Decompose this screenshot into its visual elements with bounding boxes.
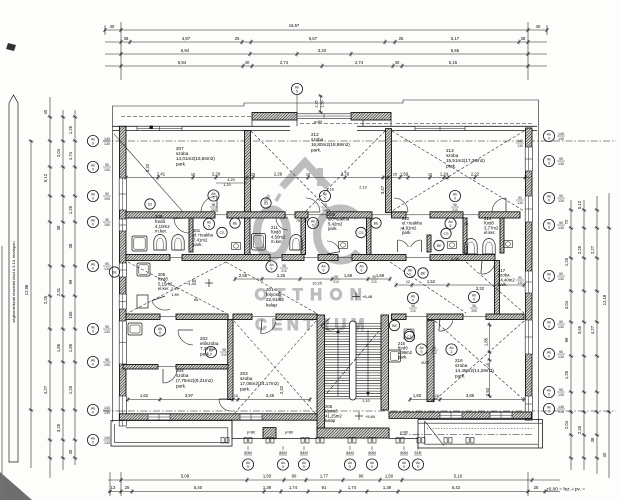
level mark corridor (352, 293, 373, 301)
svg-text:40: 40 (110, 24, 115, 29)
eaves outline (113, 100, 539, 422)
kitchen block room 202 (128, 323, 142, 335)
svg-text:park.: park. (176, 161, 186, 166)
svg-text:1,68: 1,68 (344, 273, 353, 278)
svg-text:1,60: 1,60 (413, 393, 422, 398)
svg-text:5,15: 5,15 (449, 60, 458, 65)
corridor upper wall (126, 255, 170, 261)
svg-text:10: 10 (435, 394, 439, 398)
bubble leader line top (296, 95, 298, 113)
svg-text:5: 5 (450, 224, 452, 228)
left exterior wall (120, 126, 127, 420)
svg-text:1,74: 1,74 (68, 151, 73, 160)
svg-text:84: 84 (192, 279, 196, 283)
basin near 202 (232, 243, 241, 250)
svg-text:1,10: 1,10 (362, 399, 369, 403)
svg-text:9: 9 (92, 267, 94, 271)
door room 207 (201, 196, 217, 212)
svg-text:BE: BE (421, 271, 426, 275)
svg-text:9: 9 (548, 277, 550, 281)
svg-text:2,10: 2,10 (359, 186, 366, 190)
svg-text:CS: CS (359, 231, 365, 235)
svg-text:p=80: p=80 (285, 431, 294, 435)
stair bottom wall (317, 428, 389, 438)
svg-text:9: 9 (92, 411, 94, 415)
svg-text:2,25: 2,25 (277, 273, 286, 278)
svg-text:2,55: 2,55 (239, 273, 248, 278)
svg-text:98: 98 (432, 346, 436, 350)
top wall window room 213 (415, 126, 465, 130)
svg-text:140: 140 (104, 436, 110, 440)
svg-text:kalap: kalap (266, 302, 277, 307)
svg-text:el.ker.: el.ker. (484, 230, 495, 235)
svg-text:190: 190 (104, 197, 110, 201)
diagonal sight lines (114, 134, 183, 212)
svg-text:1,18: 1,18 (326, 188, 333, 192)
svg-text:40: 40 (395, 60, 400, 65)
door room 209 (327, 241, 340, 252)
svg-text:9: 9 (247, 465, 249, 469)
loggia pillar right (351, 113, 391, 121)
dim row corridor (233, 257, 525, 291)
svg-text:130: 130 (558, 226, 564, 230)
door room 213 right (492, 198, 506, 212)
svg-text:98: 98 (323, 203, 327, 207)
svg-text:210: 210 (333, 280, 339, 284)
svg-text:99: 99 (68, 279, 73, 284)
svg-text:5,94: 5,94 (178, 60, 187, 65)
svg-text:3,04: 3,04 (564, 300, 569, 309)
svg-text:190: 190 (104, 363, 110, 367)
svg-text:140: 140 (558, 405, 564, 409)
svg-text:5: 5 (296, 90, 298, 94)
svg-text:5,12: 5,12 (577, 200, 582, 209)
svg-text:130: 130 (558, 277, 564, 281)
svg-text:12,98: 12,98 (24, 284, 29, 295)
svg-text:130: 130 (104, 441, 110, 445)
svg-text:2,27: 2,27 (590, 245, 595, 254)
double door room 210 (398, 240, 409, 247)
svg-text:40: 40 (68, 449, 73, 454)
svg-text:90: 90 (105, 262, 109, 266)
svg-text:12,18: 12,18 (602, 294, 607, 305)
svg-text:16: 16 (486, 363, 490, 367)
svg-text:park.: park. (455, 373, 465, 378)
scan smudge bottom left (0, 472, 32, 500)
svg-text:BE: BE (233, 221, 238, 225)
svg-text:p=80: p=80 (247, 431, 256, 435)
basin room 214 (504, 241, 513, 248)
svg-text:4,27: 4,27 (590, 325, 595, 334)
wall between 204 and 203 (228, 320, 233, 400)
svg-text:75: 75 (296, 219, 300, 223)
toilet room 214 (465, 238, 477, 254)
svg-text:90: 90 (559, 272, 563, 276)
top dimension block (103, 22, 548, 80)
dim row bottom rooms (126, 322, 525, 403)
svg-text:3,47: 3,47 (380, 185, 385, 194)
svg-text:1,52: 1,52 (427, 279, 436, 284)
svg-text:park.: park. (328, 226, 338, 231)
svg-text:130: 130 (104, 411, 110, 415)
bottom exterior wall right block (389, 412, 532, 418)
svg-text:130: 130 (558, 410, 564, 414)
svg-text:50M: 50M (400, 451, 407, 455)
svg-text:+6,48: +6,48 (362, 294, 373, 299)
svg-text:1,89: 1,89 (171, 293, 178, 297)
small rect room 205 (137, 295, 148, 308)
svg-text:2,41: 2,41 (157, 172, 166, 177)
svg-text:2,25: 2,25 (43, 295, 48, 304)
bottom bubbles row (247, 446, 249, 450)
svg-text:90: 90 (359, 474, 364, 479)
right terrace (418, 420, 543, 448)
svg-text:BE: BE (437, 244, 442, 248)
sub dim 1,20 (216, 182, 247, 184)
svg-text:210: 210 (410, 309, 416, 313)
middle horizontal wall (126, 212, 215, 218)
svg-text:9: 9 (548, 137, 550, 141)
top center vertical dim (315, 94, 325, 113)
svg-text:9: 9 (548, 410, 550, 414)
basin room 215 (404, 329, 413, 338)
toilet room 208 (154, 235, 166, 250)
svg-text:2,32: 2,32 (279, 385, 284, 394)
door room 203 (261, 322, 276, 334)
basin room 209 (339, 242, 348, 249)
svg-text:1,85: 1,85 (68, 343, 73, 352)
svg-text:140: 140 (558, 132, 564, 136)
svg-text:1,20: 1,20 (223, 183, 230, 187)
svg-text:5,40: 5,40 (194, 485, 203, 490)
corridor lower wall right (392, 314, 407, 320)
svg-text:98: 98 (453, 203, 457, 207)
door room 205 (152, 301, 170, 310)
svg-text:5,10: 5,10 (454, 474, 463, 479)
stairwell right wall (381, 315, 389, 410)
svg-text:210: 210 (322, 208, 328, 212)
svg-text:38: 38 (521, 36, 526, 41)
svg-text:38: 38 (56, 225, 61, 230)
svg-text:90: 90 (292, 474, 297, 479)
svg-text:9: 9 (271, 267, 273, 271)
svg-text:2,04: 2,04 (56, 148, 61, 157)
svg-text:CS: CS (407, 335, 413, 339)
column dot top wall (150, 126, 153, 129)
svg-text:3,26: 3,26 (56, 423, 61, 432)
svg-text:140: 140 (517, 139, 523, 143)
svg-text:130: 130 (517, 144, 523, 148)
shower room 215 (389, 350, 401, 362)
svg-text:1,50: 1,50 (263, 474, 272, 479)
loggia window line (297, 114, 351, 119)
shower room 208 (132, 236, 147, 251)
bottom wall openings (148, 414, 170, 420)
wall between rooms 207 and 212 (245, 131, 251, 213)
svg-text:BE: BE (392, 324, 397, 328)
svg-text:m.ker.: m.ker. (155, 229, 167, 234)
pillar connectors (251, 120, 253, 126)
svg-text:10,25: 10,25 (312, 282, 322, 286)
svg-text:130: 130 (558, 355, 564, 359)
svg-text:2: 2 (451, 350, 453, 354)
svg-text:4,27: 4,27 (43, 385, 48, 394)
svg-text:25: 25 (235, 36, 240, 41)
svg-text:2,29: 2,29 (274, 172, 283, 177)
svg-text:9: 9 (361, 269, 363, 273)
svg-text:38: 38 (124, 36, 129, 41)
right wall windows (525, 147, 532, 171)
svg-text:el.ker.: el.ker. (158, 286, 169, 291)
svg-text:9: 9 (548, 199, 550, 203)
svg-text:98: 98 (222, 348, 226, 352)
scan mark top left (6, 43, 16, 51)
svg-text:9: 9 (92, 168, 94, 172)
svg-text:25: 25 (251, 173, 255, 177)
right dimension lines (564, 193, 611, 478)
svg-text:3,79: 3,79 (341, 172, 350, 177)
middle band vertical walls (189, 218, 193, 252)
right wall window tags (516, 139, 524, 148)
left dimension lines (24, 97, 77, 478)
svg-text:2,20: 2,20 (212, 172, 221, 177)
svg-text:98: 98 (411, 304, 415, 308)
svg-text:130: 130 (558, 162, 564, 166)
svg-text:2,74: 2,74 (355, 60, 364, 65)
svg-text:99: 99 (564, 337, 569, 342)
roof overhang dashed (121, 115, 295, 117)
loggia pillar left (252, 113, 297, 121)
svg-text:5: 5 (312, 224, 314, 228)
svg-text:210: 210 (452, 208, 458, 212)
svg-text:3,65: 3,65 (577, 325, 582, 334)
svg-text:12: 12 (406, 280, 410, 284)
svg-text:90: 90 (105, 218, 109, 222)
svg-text:3,32: 3,32 (476, 286, 485, 291)
svg-text:2,92: 2,92 (485, 387, 490, 396)
svg-text:9: 9 (92, 330, 94, 334)
middle terrace front edge (232, 438, 317, 440)
svg-text:8: 8 (159, 331, 161, 335)
svg-text:9: 9 (371, 465, 373, 469)
svg-text:75: 75 (464, 222, 468, 226)
svg-text:98: 98 (372, 275, 376, 279)
svg-text:40: 40 (245, 60, 250, 65)
door room 217 (481, 263, 495, 274)
svg-text:p=80: p=80 (314, 120, 323, 124)
svg-text:205: 205 (471, 309, 477, 313)
stair arrows (337, 330, 339, 396)
svg-text:51R: 51R (415, 451, 422, 455)
svg-text:16: 16 (428, 173, 432, 177)
door room 211 (276, 218, 288, 230)
svg-text:BE: BE (374, 221, 379, 225)
svg-text:1,24: 1,24 (440, 172, 449, 177)
svg-text:1,26: 1,26 (68, 385, 73, 394)
bottom exterior wall left block (120, 414, 318, 420)
svg-text:±0,00 = fsz.-i pv. =: ±0,00 = fsz.-i pv. = (546, 487, 585, 493)
stair break line (327, 331, 379, 393)
svg-text:1,50: 1,50 (385, 474, 394, 479)
svg-text:10: 10 (234, 394, 238, 398)
svg-text:98: 98 (212, 203, 216, 207)
window size tags in plan (210, 203, 218, 212)
svg-text:5,17: 5,17 (451, 36, 460, 41)
svg-text:212: 212 (431, 351, 437, 355)
terrace feet marks (221, 438, 224, 444)
svg-text:165: 165 (68, 311, 73, 319)
svg-text:9: 9 (92, 197, 94, 201)
svg-text:1,77: 1,77 (320, 474, 329, 479)
svg-text:90: 90 (559, 388, 563, 392)
svg-text:3,86: 3,86 (466, 393, 475, 398)
svg-text:84M: 84M (346, 451, 353, 455)
watermark Otthon Centrum logo (257, 162, 358, 261)
svg-text:1,50: 1,50 (321, 101, 325, 108)
stair treads (325, 324, 382, 399)
door room 208 (174, 219, 189, 234)
svg-text:5,12: 5,12 (43, 173, 48, 182)
svg-text:50M: 50M (244, 451, 251, 455)
svg-text:1,25: 1,25 (68, 205, 73, 214)
svg-text:5,42: 5,42 (452, 485, 461, 490)
svg-text:5,94: 5,94 (181, 48, 190, 53)
wall left of room 217 (495, 261, 500, 318)
svg-text:9: 9 (412, 299, 414, 303)
svg-text:130: 130 (558, 325, 564, 329)
svg-text:9: 9 (548, 162, 550, 166)
toilet room 211 (290, 234, 302, 250)
shower room 205 (137, 263, 150, 276)
svg-text:park.: park. (398, 355, 407, 360)
door room 204 second (219, 399, 229, 411)
svg-text:2: 2 (409, 273, 411, 277)
svg-text:130: 130 (104, 267, 110, 271)
top exterior wall right part (357, 126, 537, 130)
svg-text:210: 210 (281, 269, 287, 273)
svg-text:2,22: 2,22 (471, 172, 480, 177)
dim row top rooms (124, 163, 530, 194)
svg-text:16: 16 (306, 173, 310, 177)
svg-text:190: 190 (104, 223, 110, 227)
door room 204 (163, 369, 177, 383)
corridor lower wall left (126, 314, 160, 320)
svg-text:4,87: 4,87 (182, 36, 191, 41)
svg-text:40: 40 (43, 109, 48, 114)
svg-text:9: 9 (454, 197, 456, 201)
svg-text:2,25: 2,25 (577, 425, 582, 434)
right middle front edge (389, 438, 418, 440)
svg-text:90: 90 (518, 276, 522, 280)
toilet room 214b (483, 238, 495, 254)
svg-text:9: 9 (548, 325, 550, 329)
svg-text:2,25: 2,25 (315, 101, 319, 108)
svg-text:84M: 84M (300, 451, 307, 455)
svg-text:2,25: 2,25 (577, 245, 582, 254)
svg-text:9: 9 (92, 441, 94, 445)
left window-mark bubbles (87, 135, 98, 146)
svg-text:13: 13 (111, 485, 116, 490)
bathtub room 211 (252, 234, 266, 251)
svg-text:1,62: 1,62 (140, 393, 149, 398)
svg-text:9: 9 (92, 363, 94, 367)
svg-text:5: 5 (324, 197, 326, 201)
wall between 202 and 204 (123, 365, 158, 370)
svg-text:25: 25 (125, 485, 130, 490)
svg-text:72: 72 (564, 219, 569, 224)
door room 202 (178, 330, 193, 345)
in-plan marker bubbles (291, 83, 302, 94)
door stairs (321, 326, 336, 330)
right exterior wall (526, 128, 533, 420)
svg-text:1,39: 1,39 (383, 485, 392, 490)
toilet room 208b (172, 235, 184, 250)
svg-text:5,08: 5,08 (181, 474, 190, 479)
svg-text:1,85: 1,85 (56, 343, 61, 352)
svg-text:140: 140 (104, 137, 110, 141)
svg-text:1,69: 1,69 (376, 273, 385, 278)
svg-text:210: 210 (221, 353, 227, 357)
svg-text:9: 9 (403, 465, 405, 469)
svg-text:90: 90 (559, 221, 563, 225)
svg-text:park.: park. (446, 163, 456, 168)
svg-text:130: 130 (517, 281, 523, 285)
svg-text:1,85: 1,85 (484, 337, 489, 346)
terrace pillar left (263, 428, 276, 439)
left terrace (111, 421, 232, 447)
svg-text:2,04: 2,04 (564, 420, 569, 429)
svg-text:1,39: 1,39 (263, 485, 272, 490)
wall right of room 215 (427, 321, 434, 402)
svg-text:9: 9 (349, 465, 351, 469)
svg-text:park.: park. (176, 383, 186, 388)
basin room 210 (448, 242, 457, 249)
svg-text:9: 9 (282, 465, 284, 469)
scan edge line (1, 246, 3, 500)
svg-text:210: 210 (371, 280, 377, 284)
svg-text:9: 9 (210, 353, 212, 357)
svg-text:4,20: 4,20 (227, 178, 234, 182)
svg-text:98: 98 (334, 275, 338, 279)
svg-text:9: 9 (548, 393, 550, 397)
svg-text:16,57: 16,57 (289, 23, 300, 28)
svg-text:84M: 84M (279, 451, 286, 455)
svg-text:9: 9 (92, 223, 94, 227)
svg-text:9: 9 (548, 355, 550, 359)
svg-text:98: 98 (282, 264, 286, 268)
svg-text:9: 9 (323, 269, 325, 273)
svg-text:CS: CS (220, 231, 226, 235)
svg-text:9: 9 (548, 226, 550, 230)
svg-text:1,26: 1,26 (68, 125, 73, 134)
svg-text:3,97: 3,97 (185, 393, 194, 398)
svg-text:16: 16 (191, 173, 195, 177)
svg-text:90: 90 (559, 350, 563, 354)
top wall window room 207 (137, 126, 182, 130)
svg-text:50M: 50M (368, 451, 375, 455)
svg-text:2,31: 2,31 (56, 287, 61, 296)
right window-mark bubbles (543, 130, 554, 141)
svg-text:90: 90 (518, 196, 522, 200)
svg-text:90: 90 (105, 325, 109, 329)
svg-text:140: 140 (104, 406, 110, 410)
svg-text:98: 98 (105, 358, 109, 362)
top exterior wall left part (113, 126, 291, 130)
svg-text:+5,60: +5,60 (365, 414, 376, 419)
svg-text:3,20: 3,20 (318, 48, 327, 53)
door room 212 (306, 198, 320, 212)
svg-text:40: 40 (602, 452, 607, 457)
